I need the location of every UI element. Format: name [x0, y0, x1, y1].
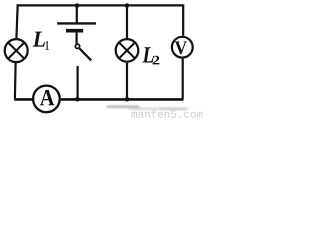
battery cell: short plate	[66, 29, 83, 33]
wire right upper	[182, 4, 184, 35]
wire switch contact to bottom	[76, 66, 78, 99]
battery cell: long plate	[57, 22, 96, 24]
junction battery bottom	[75, 97, 80, 102]
label L1	[33, 32, 49, 50]
lamp L1	[5, 39, 28, 62]
wire top	[17, 4, 184, 6]
wire battery to switch	[75, 32, 77, 43]
junction battery top	[75, 3, 80, 8]
watermark manfen5.com	[132, 110, 203, 118]
wire L2 upper	[126, 5, 128, 38]
switch lever (open)	[80, 49, 92, 61]
ammeter A	[33, 86, 60, 113]
junction L2 top	[125, 3, 130, 8]
wire right lower	[182, 59, 184, 100]
lamp L2	[116, 39, 139, 62]
wire battery drop	[76, 5, 78, 22]
wire bottom	[14, 98, 183, 101]
voltmeter V	[172, 37, 193, 58]
label L2	[142, 47, 159, 64]
wire L2 lower	[126, 63, 128, 99]
scan smudge	[107, 105, 189, 110]
wire left upper	[16, 4, 17, 38]
switch pivot	[75, 44, 79, 48]
junction L2 bottom	[125, 97, 130, 102]
wire left lower	[14, 63, 17, 100]
